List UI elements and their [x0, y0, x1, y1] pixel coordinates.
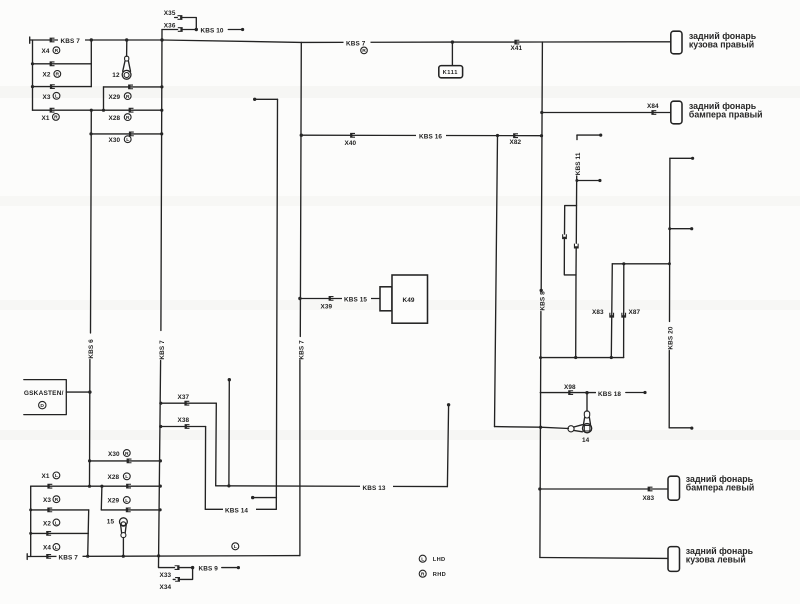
node collector / X83 leg [610, 356, 613, 359]
wire row X30 [91, 133, 162, 135]
node V21 top dot [447, 403, 450, 406]
svg-text:R: R [126, 94, 130, 100]
svg-text:бампера левый: бампера левый [686, 483, 754, 493]
node KBS20 / mid stub [668, 227, 671, 230]
scan shading band [0, 300, 800, 310]
node hook top dot [253, 98, 256, 101]
wire X38 drop V7 [204, 427, 206, 510]
node X28 row / V5 [160, 109, 163, 112]
svg-text:X35: X35 [164, 10, 176, 17]
pin circle R under KBS7 label [361, 47, 368, 54]
connector X39 [329, 296, 334, 301]
pin circle R of X30b [123, 450, 130, 457]
lamp 14 horizontal socket circle [568, 426, 574, 432]
svg-text:KBS 13: KBS 13 [363, 485, 386, 492]
connector X33 [175, 565, 180, 570]
wire row X1 / X28 [33, 109, 162, 111]
node rail x91 [90, 38, 93, 41]
svg-text:LHD: LHD [433, 557, 446, 563]
svg-text:K111: K111 [443, 70, 458, 76]
wire X37 drop V6 [215, 403, 218, 486]
connector row X29 [128, 85, 133, 90]
legend circle L [419, 555, 426, 562]
svg-text:KBS 15: KBS 15 [344, 296, 367, 303]
svg-text:KBS 7: KBS 7 [346, 41, 366, 48]
node X30 row / V5 [160, 132, 163, 135]
pin circle L of X2b [53, 519, 60, 526]
wire KBS20 bottom elbow [669, 427, 691, 429]
label KBS 7 top-left [58, 36, 85, 45]
node KBS 10 end dot [241, 28, 244, 31]
svg-text:L: L [55, 94, 58, 100]
wire row X29 [104, 86, 162, 88]
pin circle L of X29b [123, 497, 130, 504]
svg-text:X29: X29 [108, 497, 120, 504]
label KBS 7 bottom [57, 552, 83, 561]
wire lamp row left-body [540, 557, 668, 560]
svg-text:X3: X3 [43, 497, 51, 504]
svg-text:X98: X98 [564, 384, 576, 391]
wire V8 drop [228, 380, 230, 486]
lamp I2 stem [126, 40, 128, 56]
relay K111 box [439, 66, 463, 78]
pin circle L of X1b [53, 472, 60, 479]
wire KBS 20 vertical [668, 158, 671, 428]
svg-text:X3: X3 [43, 94, 51, 101]
connector X1b [47, 484, 52, 489]
svg-text:R: R [125, 451, 129, 457]
node top feed / X87 [622, 262, 625, 265]
node stub end [690, 427, 693, 430]
node bus segment end dot (above KBS8 label) [540, 289, 543, 292]
connector X36 [178, 27, 183, 32]
svg-text:14: 14 [582, 437, 590, 444]
wire stub at 180 [577, 180, 599, 182]
svg-text:X41: X41 [511, 45, 523, 52]
connector row X1 [50, 108, 55, 113]
svg-text:L: L [55, 545, 58, 551]
svg-text:X2: X2 [43, 521, 51, 528]
relay K49 tab [380, 287, 392, 311]
pin circle R of X1 [53, 114, 60, 121]
svg-text:KBS 7: KBS 7 [61, 38, 81, 45]
svg-text:R: R [54, 115, 58, 121]
wire KBS 13 right riser V21 [447, 405, 448, 487]
scan shading band [0, 430, 800, 440]
wire X83/X87 bottom collector [541, 357, 624, 359]
lamp 15 stem [122, 538, 124, 557]
wire lamp 14 vertical drop [586, 393, 588, 412]
connector X35 [178, 15, 183, 20]
wire end tick bottom KBS7 left terminal [26, 554, 28, 560]
connector X38 [185, 424, 190, 429]
label KBS 20 (rotated) [668, 326, 675, 349]
wire lamp 14 feed row [495, 427, 569, 429]
node X30 row / KBS6 [89, 132, 92, 135]
wire row X37 [161, 402, 217, 404]
lamp box rear body right [671, 31, 682, 54]
lamp 15 bulb outer [120, 518, 128, 526]
relay K49 box [392, 275, 428, 323]
lamp I2 cap [125, 56, 129, 61]
wire row X3b [31, 509, 89, 511]
node KBS16 / V11 [496, 134, 499, 137]
svg-text:X84: X84 [647, 103, 659, 110]
svg-text:L: L [55, 473, 58, 479]
svg-text:X38: X38 [178, 417, 190, 424]
svg-text:R: R [126, 115, 130, 121]
wire X35-X36 jumper [183, 18, 197, 30]
lamp 14 vertical cone [584, 418, 591, 425]
wire X83 right leg [611, 264, 612, 358]
connector X98 [568, 390, 573, 395]
svg-text:12: 12 [112, 72, 120, 79]
wire X87 leg [623, 264, 625, 358]
lamp I2 bulb inner [124, 73, 129, 78]
node X1b row / X29b drop [100, 485, 103, 488]
svg-text:R: R [421, 572, 425, 578]
node X98 row / lamp drop [585, 391, 588, 394]
connector X84 [651, 110, 656, 115]
svg-text:KBS 7: KBS 7 [59, 555, 79, 562]
svg-text:X36: X36 [164, 22, 176, 29]
node X30b row / V5 [159, 459, 162, 462]
wire row X2 [33, 63, 92, 65]
connector X41 [514, 40, 519, 45]
lamp 14 vertical socket [584, 411, 589, 418]
svg-text:X4: X4 [43, 545, 51, 552]
wire KBS20 mid stub [670, 228, 692, 230]
wire KBS 16 row [301, 134, 541, 137]
wire V11 vertical [495, 136, 498, 427]
svg-text:L: L [126, 137, 129, 143]
label KBS 7 on rail right [344, 38, 371, 46]
wire KBS20 top stub [670, 157, 692, 159]
node X29 row / V5 [160, 85, 163, 88]
node KBS7b / lamp15 stem [122, 555, 125, 558]
node collector / jumper leg [574, 356, 577, 359]
wire row X1b / X28b [31, 485, 161, 487]
svg-text:KBS 14: KBS 14 [225, 508, 248, 515]
node X1 row / KBS6 top [90, 109, 93, 112]
connector row X28 [129, 108, 134, 113]
node KBS9 end dot [237, 566, 240, 569]
wire V5 top to X36 [162, 29, 178, 31]
wire hook lower [253, 497, 277, 499]
svg-text:X37: X37 [178, 394, 190, 401]
label KBS 8 (rotated) [539, 291, 546, 311]
scan shading band [0, 86, 800, 98]
node stub dot [598, 179, 601, 182]
wire row X30b [90, 460, 161, 462]
connector pair left leg [562, 234, 567, 239]
connector on KBS7 rail [50, 38, 55, 43]
connector row X3 [50, 84, 55, 89]
connector X34 [175, 577, 180, 582]
pin circle R of X4 [53, 47, 60, 54]
wire lamp row left-bumper [540, 488, 668, 490]
connector X2b [46, 531, 51, 536]
svg-text:X2: X2 [43, 71, 51, 78]
wire V5 elbow to X33 [159, 566, 175, 569]
lamp box rear bumper right [671, 101, 682, 124]
wire below right connector [575, 249, 578, 358]
wire bottom-left bus [30, 486, 32, 556]
svg-text:R: R [362, 48, 366, 54]
svg-text:кузова правый: кузова правый [689, 40, 754, 50]
pin circle D [39, 401, 46, 408]
pin circle L of X4b [53, 544, 60, 551]
label KBS 15 [342, 294, 371, 303]
wire KBS 11 top stub [577, 134, 600, 136]
node X36 junction [195, 28, 198, 31]
node rail/left-bus rows [31, 62, 34, 65]
wire KBS 6 vertical [90, 110, 92, 486]
lamp I2 bulb outer [122, 70, 131, 79]
svg-text:15: 15 [107, 519, 115, 526]
lamp 15 cone [121, 525, 127, 533]
svg-text:L: L [125, 498, 128, 504]
svg-text:KBS 9: KBS 9 [199, 566, 219, 573]
node V8 top dot [228, 378, 231, 381]
svg-text:X39: X39 [321, 303, 333, 310]
node X38 row / V5 [159, 425, 162, 428]
svg-text:X4: X4 [42, 48, 50, 55]
svg-text:X28: X28 [108, 474, 120, 481]
wire KBS 13 row [216, 485, 448, 488]
label KBS 7 (rotated, V10) [298, 340, 305, 360]
svg-text:X34: X34 [160, 584, 172, 591]
svg-text:K49: K49 [403, 297, 415, 304]
node X37 row / V5 [159, 402, 162, 405]
pin circle R of X3b [53, 496, 60, 503]
lamp I2 cone [123, 61, 131, 71]
connector X82 [513, 133, 518, 138]
node X3b row / bus [29, 508, 32, 511]
svg-text:R: R [55, 497, 59, 503]
svg-text:X87: X87 [629, 309, 641, 316]
node GSKASTEN wire / KBS6 [88, 390, 91, 393]
svg-text:D: D [40, 403, 44, 409]
node rail x162 [160, 38, 163, 41]
connector X30b [127, 459, 132, 464]
wire X98 row [540, 392, 595, 394]
connector X83 (right group) [609, 313, 614, 318]
lamp box rear body left [668, 547, 680, 572]
svg-text:KBS 16: KBS 16 [419, 134, 442, 141]
svg-text:RHD: RHD [433, 572, 446, 578]
node [31, 85, 34, 88]
svg-text:KBS 7: KBS 7 [159, 340, 166, 360]
svg-text:X30: X30 [109, 137, 121, 144]
node KBS11 stub end dot [599, 134, 602, 137]
wire connector-pair loop left leg [564, 206, 576, 275]
svg-text:X1: X1 [42, 473, 50, 480]
node KBS16 / bus [540, 134, 543, 137]
node KBS15 / V10 [298, 297, 301, 300]
wire X33 to junction [180, 567, 193, 569]
svg-text:X33: X33 [160, 572, 172, 579]
node collector / bus [539, 356, 542, 359]
svg-text:GSKASTEN/: GSKASTEN/ [24, 390, 64, 397]
svg-text:X40: X40 [345, 140, 357, 147]
wire row X3 [33, 86, 92, 88]
wire row X38 [161, 426, 206, 428]
pin circle L of X30 [124, 136, 131, 143]
svg-text:кузова левый: кузова левый [686, 555, 746, 565]
svg-text:X82: X82 [510, 139, 522, 146]
svg-text:X30: X30 [108, 451, 120, 458]
wire GSKASTEN to KBS6 [66, 391, 90, 393]
pin circle R of X29 [124, 93, 131, 100]
label KBS 18 [596, 388, 626, 397]
wire X35 tail [175, 17, 178, 19]
label KBS 16 [416, 131, 446, 140]
svg-text:L: L [234, 544, 237, 550]
wire right bus V12 [540, 42, 543, 558]
pin circle L of X3 [53, 92, 60, 99]
svg-text:KBS 20: KBS 20 [668, 326, 675, 349]
node KBS18 end dot [643, 391, 646, 394]
svg-text:KBS 7: KBS 7 [298, 340, 305, 360]
svg-text:X83: X83 [643, 495, 655, 502]
label KBS 6 (rotated) [88, 339, 95, 359]
wire KBS 18 stub [626, 392, 644, 394]
wire row X2b [31, 532, 89, 534]
wire KBS 7 mid-left vertical V5 [159, 30, 163, 567]
connector X87 [621, 313, 626, 318]
node KBS13 / V8 [227, 484, 230, 487]
pin circle R of X2 [54, 71, 61, 78]
box K111 stem [451, 42, 453, 66]
label KBS 11 (rotated) [575, 152, 582, 175]
svg-text:KBS 11: KBS 11 [575, 152, 582, 175]
node lamp14 row / bus [539, 426, 542, 429]
svg-text:KBS 6: KBS 6 [88, 339, 95, 359]
svg-text:X1: X1 [42, 115, 50, 122]
connector X4b [46, 554, 51, 559]
node stub junction [575, 179, 578, 182]
wire X83/X87 top feed [612, 263, 669, 265]
svg-text:KBS 8: KBS 8 [539, 291, 546, 311]
lamp 15 bulb inner [121, 522, 125, 526]
pin circle R of X28 [124, 114, 131, 121]
connector X83 (left lamp) [648, 487, 653, 492]
wire lamp row right-bumper (X84) [542, 112, 671, 114]
node rail lamp12 stem [125, 38, 128, 41]
svg-text:R: R [55, 48, 59, 54]
lamp box rear bumper left [668, 476, 680, 500]
wire KBS 7 top rail [30, 40, 671, 42]
wire X34 tail [173, 578, 175, 580]
wire X29b drop [100, 486, 103, 510]
wire X33-X34 jumper [180, 568, 192, 580]
node X84 row / bus [540, 111, 543, 114]
label KBS 13 [360, 482, 393, 491]
svg-text:бампера правый: бампера правый [689, 110, 763, 120]
wire KBS 7 mid vertical V10 [300, 42, 301, 555]
box GSKASTEN (open left) [24, 380, 67, 415]
node top feed / KBS20 [668, 262, 671, 265]
svg-text:L: L [421, 557, 424, 563]
connector X28b [126, 484, 131, 489]
wire row X29b [101, 509, 160, 511]
pin circle L of X28b [123, 473, 130, 480]
wire KBS 7 bottom row [27, 555, 300, 558]
wire X29 left edge drop [103, 87, 105, 110]
svg-text:L: L [55, 520, 58, 526]
wire KBS 15 row [300, 298, 380, 300]
scan shading band [0, 196, 800, 206]
connector row X2 [50, 61, 55, 66]
wire right edge of rows 1-3 [90, 40, 92, 87]
wire left bus (top group) [32, 40, 34, 110]
svg-text:X83: X83 [592, 309, 604, 316]
svg-text:L: L [125, 474, 128, 480]
svg-text:X28: X28 [109, 115, 121, 122]
node K111 stem on rail [451, 40, 454, 43]
wire end tick KBS7 rail left terminal [29, 37, 31, 43]
node KBS7b / V24 [86, 555, 89, 558]
wire X36 to junction [183, 29, 196, 31]
connector X29b [126, 508, 131, 513]
node X33 junction [191, 566, 194, 569]
legend circle R [419, 570, 426, 577]
wire X3b-X2b edge drop V24 [88, 510, 89, 556]
connector X37 [184, 401, 189, 406]
node X29b row / V5 [159, 508, 162, 511]
svg-text:KBS 10: KBS 10 [201, 27, 224, 34]
wire hook top [255, 98, 278, 100]
label KBS 14 [223, 505, 256, 514]
node left-bumper row / bus [538, 487, 541, 490]
wire KBS 14 row [205, 508, 276, 510]
node X1b row / V5 [159, 485, 162, 488]
wire V9 long vertical [276, 99, 277, 509]
wire KBS 9 stub [222, 567, 238, 569]
connector row X30 [129, 132, 134, 137]
node X1b row / KBS6 bottom [88, 485, 91, 488]
node X30b row / KBS6 [88, 459, 91, 462]
lamp 14 bulb outer [583, 424, 592, 433]
lamp 15 socket circle [121, 533, 126, 538]
svg-text:R: R [56, 72, 60, 78]
svg-text:KBS 18: KBS 18 [598, 391, 621, 398]
svg-text:X29: X29 [109, 94, 121, 101]
connector X3b [47, 508, 52, 513]
node X2b row / bus [29, 532, 32, 535]
pin circle L above bottom KBS7 row [232, 543, 239, 550]
label KBS 7 (rotated, V5) [159, 340, 166, 360]
connector pair right leg [574, 244, 579, 249]
node X1 row / X29 drop [102, 109, 105, 112]
node stub end [690, 227, 693, 230]
node KBS7b / V5 [157, 554, 160, 557]
node hook lower dot [251, 496, 254, 499]
lamp 14 horizontal cone [574, 425, 583, 432]
lamp 14 bulb inner square [584, 425, 590, 431]
connector X40 [350, 133, 355, 138]
node stub end [691, 157, 694, 160]
wire KBS 10 stub [228, 29, 241, 31]
wire KBS 11 vertical mid [575, 176, 577, 243]
wire KBS 11 vertical upper [576, 135, 578, 140]
node KBS16 / V10 [300, 134, 303, 137]
